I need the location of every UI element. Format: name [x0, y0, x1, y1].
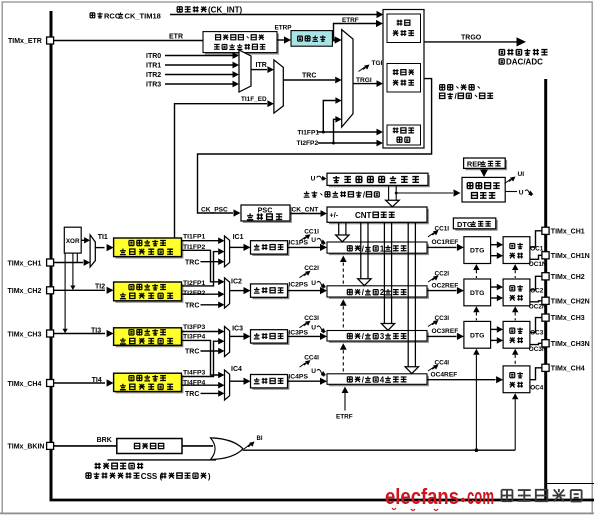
svg-text:OC2N: OC2N — [529, 304, 547, 311]
svg-text:OC2REF: OC2REF — [432, 282, 459, 289]
svg-text:OC3REF: OC3REF — [432, 328, 459, 335]
svg-text:U: U — [311, 325, 316, 332]
svg-text:TI1: TI1 — [98, 234, 108, 241]
svg-text:com: com — [467, 484, 494, 509]
svg-text:U: U — [311, 280, 316, 287]
svg-text:XOR: XOR — [66, 238, 80, 245]
svg-text:3: 3 — [380, 332, 385, 341]
svg-text:CC4I: CC4I — [304, 355, 319, 362]
svg-text:TI2FP2: TI2FP2 — [297, 140, 319, 147]
svg-text:TRC: TRC — [185, 303, 199, 310]
svg-text:TIMx_BKIN: TIMx_BKIN — [8, 444, 45, 451]
svg-text:TIMx_CH4: TIMx_CH4 — [8, 381, 42, 388]
svg-text:TI1FP1: TI1FP1 — [297, 130, 319, 137]
svg-text:U: U — [311, 368, 316, 375]
svg-text:TI4FP3: TI4FP3 — [183, 370, 206, 377]
svg-text:IC2: IC2 — [231, 279, 242, 286]
svg-text:+/-: +/- — [330, 210, 339, 219]
svg-text:TI3FP4: TI3FP4 — [183, 334, 206, 341]
svg-text:IC3PS: IC3PS — [288, 330, 308, 337]
svg-text:ETRF: ETRF — [336, 413, 353, 420]
svg-text:U: U — [311, 175, 316, 182]
svg-text:CK_TIM18: CK_TIM18 — [125, 11, 161, 20]
svg-text:TI1F_ED: TI1F_ED — [241, 96, 267, 103]
svg-text:U: U — [311, 237, 316, 244]
svg-text:TIMx_CH2: TIMx_CH2 — [8, 288, 42, 295]
svg-text:TRC: TRC — [302, 72, 316, 79]
svg-text:TIMx_CH3: TIMx_CH3 — [551, 315, 585, 322]
svg-text:ITR3: ITR3 — [146, 82, 161, 89]
svg-text:BI: BI — [257, 436, 263, 442]
svg-text:IC4PS: IC4PS — [288, 374, 308, 381]
svg-text:TI3FP3: TI3FP3 — [183, 324, 206, 331]
svg-text:REP: REP — [467, 160, 482, 169]
svg-text:DTG: DTG — [470, 290, 484, 297]
svg-text:IC4: IC4 — [231, 366, 242, 373]
svg-text:DTG: DTG — [470, 332, 484, 339]
svg-text:OC1: OC1 — [530, 245, 544, 252]
svg-text:TGI: TGI — [372, 60, 383, 67]
svg-text:ITR0: ITR0 — [146, 53, 161, 60]
svg-text:BRK: BRK — [97, 437, 112, 444]
svg-text:): ) — [208, 472, 211, 481]
svg-text:ETR: ETR — [169, 33, 183, 40]
svg-text:CK_CNT: CK_CNT — [292, 207, 319, 214]
svg-text:TIMx_CH2: TIMx_CH2 — [551, 274, 585, 281]
svg-text:TIMx_CH4: TIMx_CH4 — [551, 365, 585, 372]
svg-text:ETRP: ETRP — [275, 24, 293, 31]
svg-text:TRC: TRC — [185, 391, 199, 398]
svg-text:TIMx_CH1: TIMx_CH1 — [8, 260, 42, 267]
svg-text:CK_PSC: CK_PSC — [201, 206, 228, 213]
svg-text:TRC: TRC — [185, 259, 199, 266]
svg-text:CC3I: CC3I — [304, 315, 319, 322]
svg-text:TIMx_CH1N: TIMx_CH1N — [551, 253, 590, 260]
svg-text:PSC: PSC — [258, 205, 273, 214]
svg-text:CSS (: CSS ( — [141, 472, 163, 481]
svg-text:CC2I: CC2I — [304, 265, 319, 272]
svg-text:CNT: CNT — [355, 211, 372, 220]
svg-text:(CK_INT): (CK_INT) — [208, 6, 243, 15]
svg-text:IC1PS: IC1PS — [288, 240, 308, 247]
svg-text:ITR1: ITR1 — [146, 63, 161, 70]
svg-text:elecfans: elecfans — [385, 484, 459, 509]
svg-text:IC1: IC1 — [233, 234, 244, 241]
svg-text:CC1I: CC1I — [304, 229, 319, 236]
svg-text:ITR2: ITR2 — [146, 72, 161, 79]
svg-text:OC2: OC2 — [530, 287, 544, 294]
svg-text:U: U — [519, 189, 524, 196]
svg-text:OC3N: OC3N — [529, 346, 547, 353]
svg-text:TIMx_CH3: TIMx_CH3 — [8, 331, 42, 338]
svg-text:UI: UI — [518, 171, 525, 178]
svg-text:TIMx_CH3N: TIMx_CH3N — [551, 341, 590, 348]
svg-text:4: 4 — [380, 376, 385, 385]
svg-text:OC4REF: OC4REF — [431, 372, 458, 379]
svg-text:RCC: RCC — [104, 11, 121, 20]
svg-text:TIMx_ETR: TIMx_ETR — [8, 38, 42, 45]
svg-text:OC1REF: OC1REF — [432, 239, 459, 246]
svg-text:TIMx_CH1: TIMx_CH1 — [551, 228, 585, 235]
svg-text:ITR: ITR — [256, 62, 267, 69]
svg-text:IC3: IC3 — [232, 326, 243, 333]
svg-text:DAC/ADC: DAC/ADC — [506, 58, 543, 67]
svg-text:DTG: DTG — [470, 248, 484, 255]
svg-text:TI1FP1: TI1FP1 — [183, 233, 206, 240]
svg-text:OC1N: OC1N — [529, 261, 547, 268]
svg-text:DTG: DTG — [457, 220, 473, 229]
svg-text:TI4: TI4 — [92, 377, 102, 384]
svg-text:OC4: OC4 — [530, 384, 544, 391]
svg-text:TI2: TI2 — [95, 283, 105, 290]
svg-text:TRC: TRC — [185, 349, 199, 356]
svg-text:OC3: OC3 — [530, 329, 544, 336]
svg-text:IC2PS: IC2PS — [288, 282, 308, 289]
svg-text:ETRF: ETRF — [342, 17, 359, 24]
svg-text:TRGO: TRGO — [461, 34, 482, 41]
svg-text:TI3: TI3 — [91, 327, 101, 334]
svg-text:TIMx_CH2N: TIMx_CH2N — [551, 298, 590, 305]
